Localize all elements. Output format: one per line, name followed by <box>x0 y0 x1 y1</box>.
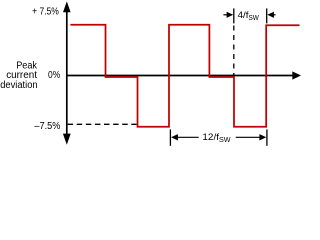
svg-text:0%: 0% <box>48 70 60 81</box>
y-axis arrowhead top <box>63 1 71 12</box>
svg-text:+ 7.5%: + 7.5% <box>32 7 59 18</box>
4/fsw right arrow (points left at bar) <box>271 14 276 16</box>
svg-text:–7.5%: –7.5% <box>34 121 60 132</box>
measurement bar top left (on dashed line) <box>233 8 235 23</box>
svg-text:12/fSW: 12/fSW <box>202 132 231 144</box>
12/fsw right arrow (points right) <box>236 136 261 138</box>
12/fsw left arrow (points left) <box>177 136 199 138</box>
measurement bar bottom left <box>169 129 171 145</box>
x-axis arrowhead right <box>292 71 301 79</box>
svg-text:deviation: deviation <box>0 80 37 91</box>
4/fsw left arrow (points right at dashed line) <box>223 14 229 16</box>
dashed vertical line at 4/fsw start <box>233 26 235 77</box>
y-axis arrowhead bottom <box>63 134 71 145</box>
axis label peak current deviation <box>0 61 38 91</box>
measurement bar top right <box>266 8 268 23</box>
measurement bar bottom right <box>266 129 268 145</box>
x-axis line <box>67 75 294 77</box>
red waveform trace <box>70 25 299 127</box>
dashed guide line -7.5% <box>68 123 137 125</box>
y-axis line <box>66 9 68 138</box>
svg-text:4/fSW: 4/fSW <box>238 10 260 22</box>
